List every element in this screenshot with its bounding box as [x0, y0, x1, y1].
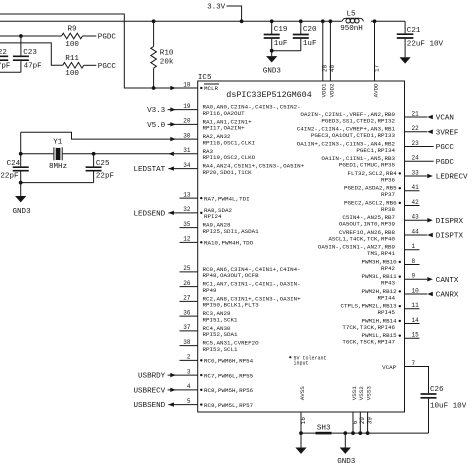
svg-text:38: 38: [183, 339, 191, 346]
svg-text:22pF: 22pF: [0, 172, 18, 180]
svg-text:PGCC: PGCC: [98, 63, 117, 71]
svg-text:AVDD: AVDD: [372, 83, 379, 98]
svg-text:RP48,OA3OUT,OCFB: RP48,OA3OUT,OCFB: [203, 272, 260, 279]
svg-text:23: 23: [412, 140, 420, 147]
svg-text:L5: L5: [347, 10, 357, 18]
wire C22 bottom to C23 bottom: [0, 71, 21, 73]
svg-text:USBRECV: USBRECV: [133, 387, 165, 395]
svg-text:43: 43: [412, 214, 420, 221]
capacitor C22 (cut off at left edge): [0, 55, 8, 57]
IC pin 41 stub (right): [405, 190, 420, 192]
svg-text:RP37: RP37: [381, 191, 396, 198]
IC pin 35 stub: [180, 227, 198, 229]
svg-text:20k: 20k: [160, 59, 174, 67]
IC pin 38 stub: [180, 345, 198, 347]
svg-text:39: 39: [366, 417, 373, 425]
svg-text:RA10,PWM4H,TDO: RA10,PWM4H,TDO: [204, 240, 254, 247]
svg-text:V5.0: V5.0: [147, 122, 166, 130]
3.3V power rail wire: [0, 20, 342, 22]
wire down to ground: [20, 183, 22, 196]
svg-text:USBRDY: USBRDY: [138, 373, 166, 381]
wire Y1 to OSC2 pin 31: [62, 153, 198, 155]
junction C19 / rail: [270, 19, 274, 23]
pin name text RA8,SDA2: [200, 212, 202, 214]
ground GND3 below crystal caps: [15, 196, 26, 202]
svg-text:C20: C20: [303, 26, 317, 34]
net label 3VREF wire into pin 22: [405, 131, 428, 133]
svg-text:RPI19,OSC2,CLKO: RPI19,OSC2,CLKO: [203, 154, 256, 161]
svg-text:42: 42: [412, 199, 420, 206]
svg-text:VCAN: VCAN: [436, 115, 454, 123]
svg-text:RP20,SDO1,T1CK: RP20,SDO1,T1CK: [203, 169, 253, 176]
svg-text:DISPRX: DISPRX: [436, 218, 464, 226]
svg-text:19: 19: [183, 103, 191, 110]
junction GND3 / ground rail: [343, 431, 347, 435]
junction R10 top on 3.3V rail: [152, 19, 156, 23]
svg-text:C23: C23: [23, 49, 37, 57]
svg-text:1uF: 1uF: [274, 40, 288, 48]
svg-text:27: 27: [183, 295, 191, 302]
junction VDD1 / rail: [321, 19, 325, 23]
net label CANTX wire out of pin 9: [405, 278, 428, 280]
svg-text:35: 35: [183, 221, 191, 228]
net label DISPTX wire into pin 44: [405, 234, 428, 236]
svg-text:OA5OUT,INT0,RP39: OA5OUT,INT0,RP39: [339, 221, 396, 228]
svg-text:16: 16: [300, 417, 307, 425]
svg-text:RP38: RP38: [381, 206, 396, 213]
svg-text:input: input: [294, 360, 309, 366]
svg-text:34: 34: [183, 162, 191, 169]
svg-text:22pF: 22pF: [96, 172, 114, 180]
svg-text:RP43: RP43: [381, 280, 396, 287]
junction crystal left node: [19, 152, 23, 156]
svg-text:30: 30: [183, 132, 191, 139]
svg-text:25: 25: [183, 265, 191, 272]
svg-text:PGEC3,OA1OUT,CTED1,RPI33: PGEC3,OA1OUT,CTED1,RPI33: [311, 132, 396, 139]
svg-text:12: 12: [183, 236, 191, 243]
svg-text:RC6,PWM6H,RP54: RC6,PWM6H,RP54: [204, 358, 254, 365]
svg-text:Y1: Y1: [53, 139, 63, 147]
svg-text:8MHz: 8MHz: [49, 163, 67, 171]
svg-text:C22: C22: [0, 49, 7, 57]
ground GND3 below rail: [344, 433, 346, 447]
svg-text:USBSEND: USBSEND: [133, 402, 165, 410]
junction crystal ground node: [19, 181, 23, 185]
svg-text:PGEC1,RPI34: PGEC1,RPI34: [356, 147, 395, 154]
svg-text:RPI18,OSC1,CLKI: RPI18,OSC1,CLKI: [203, 139, 256, 146]
wire VSS3 pin 39 down to rail: [367, 412, 369, 433]
svg-text:GND3: GND3: [337, 458, 356, 466]
pin direction arrow into OSC1: [170, 137, 176, 141]
IC pin 26 stub: [180, 286, 198, 288]
svg-text:36: 36: [183, 309, 191, 316]
IC pin 42 stub (right): [405, 205, 420, 207]
capacitor C26: [421, 393, 437, 395]
svg-text:C19: C19: [274, 26, 288, 34]
svg-text:1: 1: [412, 243, 416, 250]
svg-text:9: 9: [412, 273, 416, 280]
IC pin 27 stub: [180, 300, 198, 302]
wire R9 to PGDC label: [83, 35, 97, 37]
crystal Y1: [53, 147, 55, 160]
wire crystal left node to Y1: [21, 153, 54, 155]
inductor L5: [342, 18, 363, 21]
ground rail below IC: [301, 432, 429, 434]
svg-text:CANRX: CANRX: [436, 292, 459, 300]
svg-text:11: 11: [412, 302, 420, 309]
wire from 3.3V label down to rail: [227, 6, 242, 21]
IC pin 13 stub: [180, 197, 198, 199]
IC pin 37 stub: [180, 330, 198, 332]
svg-text:RPI50,BCLK1,FLT3: RPI50,BCLK1,FLT3: [203, 302, 260, 309]
svg-text:13: 13: [183, 191, 191, 198]
pin name text RA10,PWM4H,TDO: [200, 241, 202, 243]
svg-text:PGED3,SS1,CTED2,RPI32: PGED3,SS1,CTED2,RPI32: [321, 117, 395, 124]
svg-text:RC8,PWM5H,RP56: RC8,PWM5H,RP56: [204, 387, 254, 394]
svg-text:950nH: 950nH: [340, 25, 363, 33]
net label PGDC wire from pin 24: [405, 160, 434, 162]
svg-text:VSS3: VSS3: [366, 386, 373, 401]
svg-text:10uF 10V: 10uF 10V: [430, 402, 467, 410]
svg-text:7: 7: [412, 360, 416, 367]
IC pin 14 stub (right): [405, 323, 420, 325]
svg-text:DISPTX: DISPTX: [436, 233, 464, 241]
junction VDD2 / rail: [329, 19, 333, 23]
svg-text:28: 28: [322, 64, 329, 72]
svg-text:20: 20: [183, 118, 191, 125]
net label CANRX wire into pin 10: [405, 293, 428, 295]
svg-text:29: 29: [359, 417, 366, 425]
wire C25 bottom to C24 bottom ground node: [21, 182, 94, 184]
capacitor C24: [20, 154, 22, 167]
junction 3.3V label / rail: [240, 19, 244, 23]
svg-text:RPI44: RPI44: [377, 294, 395, 301]
svg-text:18: 18: [183, 81, 191, 88]
svg-text:6: 6: [352, 420, 359, 424]
svg-text:14: 14: [412, 317, 420, 324]
svg-text:37: 37: [183, 324, 191, 331]
capacitor C20: [300, 21, 302, 33]
wire MCLR net from left edge to IC pin 18: [0, 14, 198, 88]
svg-text:RPI53,SCL1: RPI53,SCL1: [203, 346, 239, 353]
svg-text:SH3: SH3: [317, 424, 331, 432]
svg-text:41: 41: [412, 184, 420, 191]
svg-text:IC5: IC5: [198, 74, 212, 82]
wire AVSS pin 16 down from chip: [300, 412, 302, 433]
net label PGCC wire from pin 23: [405, 146, 434, 148]
svg-text:22: 22: [412, 125, 420, 132]
IC pin 1 stub (right): [405, 249, 420, 251]
svg-text:47pF: 47pF: [0, 63, 10, 71]
wire VDD1 pin 28 to rail: [322, 21, 324, 81]
IC pin 36 stub: [180, 315, 198, 317]
svg-text:100: 100: [65, 70, 79, 78]
svg-text:PGED1,CTMUC,RP35: PGED1,CTMUC,RP35: [339, 162, 396, 169]
note 5V tolerant input: [289, 356, 291, 358]
svg-text:3.3V: 3.3V: [207, 4, 226, 12]
svg-text:C25: C25: [96, 160, 110, 168]
svg-text:RPI25,SDI1,ASDA1: RPI25,SDI1,ASDA1: [203, 228, 260, 235]
pin name text RC8,PWM5H,RP56: [200, 389, 202, 391]
svg-text:100: 100: [65, 41, 79, 49]
svg-text:RPI51,SCK1: RPI51,SCK1: [203, 316, 239, 323]
svg-text:R11: R11: [65, 55, 79, 63]
svg-text:RC9,PWM5L,RP57: RC9,PWM5L,RP57: [204, 402, 254, 409]
junction AVSS / ground rail: [299, 431, 303, 435]
pin name text RA7,PWM4L,TDI: [200, 197, 202, 199]
wire AVDD pin 17 down to chip: [374, 21, 376, 81]
pin name text RC9,PWM5L,RP57: [200, 403, 202, 405]
junction R10 bottom on MCLR wire: [152, 86, 156, 90]
svg-text:3VREF: 3VREF: [436, 129, 459, 137]
svg-text:AVSS: AVSS: [299, 386, 306, 401]
svg-text:R10: R10: [160, 49, 174, 57]
svg-text:40: 40: [329, 64, 336, 72]
svg-text:RC1,AN7,C3IN1-,C4IN1-,OA3IN-: RC1,AN7,C3IN1-,C4IN1-,OA3IN-: [203, 281, 301, 288]
ground symbol below C21: [400, 57, 411, 63]
svg-text:PGCC: PGCC: [436, 144, 455, 152]
svg-text:26: 26: [183, 280, 191, 287]
wire OSC1 pin 30 net from crystal node: [21, 132, 198, 139]
svg-text:VSS2: VSS2: [358, 386, 365, 401]
svg-text:21: 21: [412, 110, 420, 117]
wire R11 to PGCC label: [84, 64, 97, 66]
wire VCAP pin 7 to C26: [405, 367, 429, 394]
svg-text:PGDC: PGDC: [436, 159, 455, 167]
svg-text:dsPIC33EP512GM604: dsPIC33EP512GM604: [226, 90, 311, 100]
junction AVDD / L5 output: [373, 19, 377, 23]
IC pin 12 stub: [180, 241, 198, 243]
capacitor C21: [404, 21, 406, 33]
svg-text:GND3: GND3: [13, 208, 32, 216]
net label VCAN wire into pin 21: [405, 116, 428, 118]
svg-text:2: 2: [187, 354, 191, 361]
IC pin 2 stub: [180, 359, 198, 361]
wire VSS2 pin 29 down to rail: [359, 412, 361, 433]
svg-text:10: 10: [412, 287, 420, 294]
svg-text:RC7,PWM6L,RP55: RC7,PWM6L,RP55: [204, 372, 254, 379]
svg-text:LEDRECV: LEDRECV: [436, 174, 468, 182]
shield jumper SH3: [316, 432, 332, 435]
resistor R11: [63, 63, 84, 69]
wire PGCC net from left edge stepping down to R11: [0, 43, 63, 65]
resistor R10 pull-up: [153, 21, 155, 46]
net label DISPRX wire out of pin 43: [405, 219, 428, 221]
svg-text:3: 3: [187, 368, 191, 375]
svg-text:V3.3: V3.3: [147, 107, 166, 115]
svg-text:24: 24: [412, 155, 420, 162]
svg-text:RPI24: RPI24: [204, 213, 222, 220]
svg-text:8: 8: [412, 258, 416, 265]
svg-text:VCAP: VCAP: [382, 364, 397, 371]
resistor R9: [62, 33, 83, 39]
svg-text:CANTX: CANTX: [436, 277, 459, 285]
junction C25 top node: [92, 152, 96, 156]
svg-text:VSS1: VSS1: [351, 386, 358, 401]
svg-text:T7CK,T3CK,RPI46: T7CK,T3CK,RPI46: [342, 324, 395, 331]
op IC5 dsPIC33EP512GM604 body outline: [198, 81, 405, 412]
svg-text:32: 32: [183, 206, 191, 213]
wire PGDC net from left edge to R9: [0, 35, 62, 37]
svg-text:VDD2: VDD2: [328, 83, 335, 98]
wire C20 bottom to C19 ground node: [272, 50, 301, 52]
wire VDD2 pin 40 to rail: [329, 21, 331, 81]
svg-text:22uF 10V: 22uF 10V: [407, 40, 444, 48]
svg-text:PGDC: PGDC: [98, 34, 117, 42]
pin direction arrow into MCLR: [170, 86, 176, 90]
svg-text:RPI52,SDA1: RPI52,SDA1: [203, 331, 239, 338]
svg-text:C24: C24: [7, 160, 21, 168]
capacitor C19: [271, 21, 273, 33]
wire L5 right lead to C21: [371, 20, 405, 22]
svg-text:44: 44: [412, 228, 420, 235]
svg-text:LEDSEND: LEDSEND: [133, 210, 165, 218]
svg-text:RP42: RP42: [381, 265, 396, 272]
pin direction arrow out of OSC2: [168, 152, 174, 156]
junction C23 top / PGDC wire: [19, 34, 23, 38]
svg-text:MCLR: MCLR: [204, 85, 219, 92]
svg-text:LEDSTAT: LEDSTAT: [133, 166, 165, 174]
capacitor C25: [93, 154, 95, 167]
pin name text RC7,PWM6L,RP55: [200, 374, 202, 376]
svg-text:RPI45: RPI45: [377, 309, 395, 316]
ground GND3 below C19: [266, 56, 277, 62]
IC pin 18 MCLR name with overbar and bullet: [200, 87, 202, 89]
svg-text:RA7,PWM4L,TDI: RA7,PWM4L,TDI: [204, 195, 250, 202]
svg-text:TMS,RP41: TMS,RP41: [367, 250, 396, 257]
svg-text:RP36: RP36: [381, 176, 396, 183]
svg-text:31: 31: [183, 147, 191, 154]
svg-text:17: 17: [373, 64, 380, 72]
svg-text:RPI16,OA2OUT: RPI16,OA2OUT: [203, 110, 246, 117]
junction C19/C20 ground node: [270, 49, 274, 53]
wire VSS1 pin 6 down to rail: [352, 412, 354, 433]
IC pin 11 stub (right): [405, 308, 420, 310]
svg-text:C21: C21: [407, 27, 421, 35]
IC pin 8 stub (right): [405, 264, 420, 266]
svg-text:RPI17,OA2IN+: RPI17,OA2IN+: [203, 125, 246, 132]
svg-text:VDD1: VDD1: [321, 83, 328, 98]
svg-text:ASCL1,T4CK,TCK,RP40: ASCL1,T4CK,TCK,RP40: [328, 235, 395, 242]
svg-text:R9: R9: [68, 26, 77, 34]
svg-text:47pF: 47pF: [24, 63, 42, 71]
svg-text:T6CK,T5CK,RPI47: T6CK,T5CK,RPI47: [342, 339, 395, 346]
svg-text:RP49: RP49: [203, 287, 218, 294]
svg-text:C26: C26: [430, 386, 444, 394]
net label LEDRECV wire out of pin 33: [405, 175, 428, 177]
svg-text:GND3: GND3: [263, 67, 282, 75]
svg-text:33: 33: [412, 169, 420, 176]
svg-text:4: 4: [187, 383, 191, 390]
junction C20 / rail: [299, 19, 303, 23]
capacitor C23: [20, 36, 22, 55]
svg-text:1uF: 1uF: [303, 40, 317, 48]
svg-text:15: 15: [412, 332, 420, 339]
ground symbol below AVSS: [300, 433, 302, 447]
IC pin 15 stub (right): [405, 337, 420, 339]
svg-text:5: 5: [187, 398, 191, 405]
IC pin 25 stub: [180, 271, 198, 273]
pin name text RC6,PWM6H,RP54: [200, 359, 202, 361]
